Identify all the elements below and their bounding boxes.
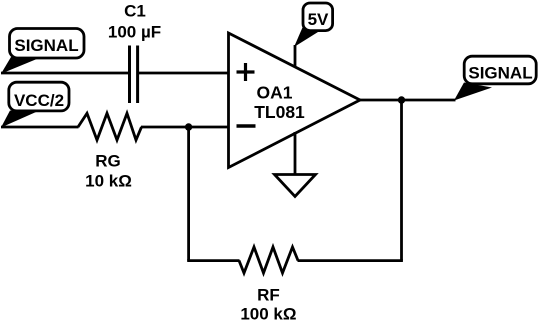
svg-text:RF: RF xyxy=(257,286,280,305)
net label SIGNAL output box xyxy=(464,56,536,84)
op-amp plus input marking xyxy=(237,63,255,81)
power tag 5V tail xyxy=(294,28,318,48)
wire input signal (left of C1) xyxy=(1,72,130,75)
wire feedback bottom right xyxy=(298,259,403,262)
svg-text:OA1: OA1 xyxy=(257,83,293,103)
svg-text:TL081: TL081 xyxy=(254,102,305,122)
node junction at output xyxy=(398,96,405,103)
wire feedback bottom left xyxy=(187,259,239,262)
wire RG to inverting input xyxy=(141,126,229,129)
op-amp OA1 triangle xyxy=(229,33,361,168)
net label VCC/2 tail xyxy=(1,111,36,128)
power tag 5V wire xyxy=(294,45,297,67)
ground triangle xyxy=(275,175,316,197)
wire C1 to op-amp non-inverting input xyxy=(138,72,229,75)
wire feedback left vertical xyxy=(187,127,190,261)
ground stem xyxy=(294,132,297,176)
resistor RG zigzag xyxy=(78,113,142,140)
svg-text:10 kΩ: 10 kΩ xyxy=(85,171,132,190)
wire feedback right vertical xyxy=(400,100,403,261)
capacitor C1 plates xyxy=(128,46,131,104)
net label SIGNAL output tail xyxy=(454,83,492,101)
resistor RF zigzag xyxy=(239,247,298,273)
svg-text:C1: C1 xyxy=(124,2,146,21)
net label VCC/2 box xyxy=(9,82,69,111)
svg-text:100 kΩ: 100 kΩ xyxy=(240,304,296,320)
net label SIGNAL input tail xyxy=(1,57,38,74)
op-amp minus input marking xyxy=(237,124,256,128)
svg-text:RG: RG xyxy=(95,151,121,170)
net label SIGNAL input box xyxy=(10,29,85,59)
svg-text:100 µF: 100 µF xyxy=(108,23,161,42)
svg-text:VCC/2: VCC/2 xyxy=(14,91,64,110)
power tag 5V box xyxy=(303,3,333,31)
svg-text:SIGNAL: SIGNAL xyxy=(468,64,532,83)
wire output xyxy=(360,99,456,102)
svg-text:SIGNAL: SIGNAL xyxy=(14,36,78,55)
wire VCC/2 to RG xyxy=(1,126,79,129)
svg-text:5V: 5V xyxy=(308,10,329,29)
node junction at inverting input xyxy=(185,123,192,130)
